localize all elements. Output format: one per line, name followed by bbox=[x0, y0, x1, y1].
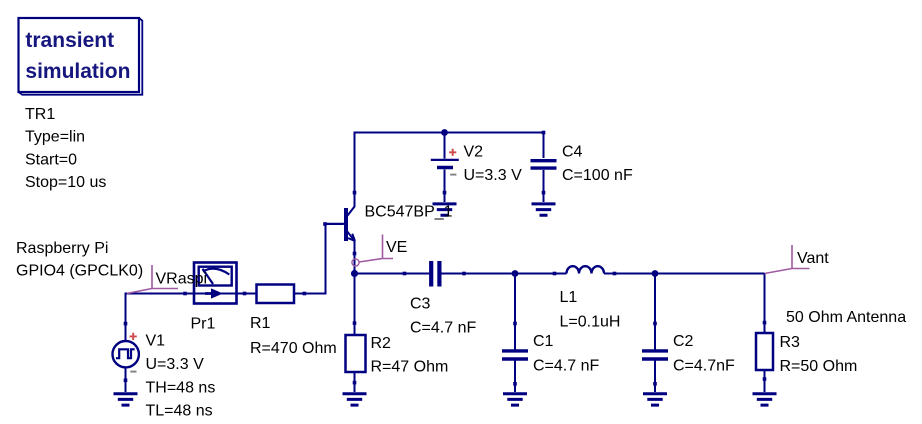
svg-text:TL=48 ns: TL=48 ns bbox=[146, 403, 213, 420]
svg-text:C=4.7 nF: C=4.7 nF bbox=[410, 320, 476, 337]
svg-text:Vant: Vant bbox=[797, 250, 829, 267]
svg-text:GPIO4 (GPCLK0): GPIO4 (GPCLK0) bbox=[16, 263, 143, 280]
svg-text:L=0.1uH: L=0.1uH bbox=[560, 314, 621, 331]
svg-text:R3: R3 bbox=[780, 334, 801, 351]
svg-text:VRaspi: VRaspi bbox=[156, 271, 208, 288]
svg-text:Type=lin: Type=lin bbox=[25, 129, 85, 146]
svg-text:R2: R2 bbox=[371, 335, 392, 352]
svg-text:TH=48 ns: TH=48 ns bbox=[146, 379, 216, 396]
svg-text:Stop=10 us: Stop=10 us bbox=[25, 174, 106, 191]
svg-text:C=100 nF: C=100 nF bbox=[562, 167, 633, 184]
svg-text:C=4.7nF: C=4.7nF bbox=[673, 358, 735, 375]
svg-text:L1: L1 bbox=[560, 289, 578, 306]
svg-text:U=3.3 V: U=3.3 V bbox=[146, 356, 205, 373]
svg-text:Raspberry Pi: Raspberry Pi bbox=[16, 240, 108, 257]
svg-text:R=470 Ohm: R=470 Ohm bbox=[250, 340, 337, 357]
svg-text:50 Ohm Antenna: 50 Ohm Antenna bbox=[786, 309, 906, 326]
svg-text:R=47 Ohm: R=47 Ohm bbox=[371, 359, 449, 376]
svg-text:BC547BP_1: BC547BP_1 bbox=[365, 204, 453, 221]
svg-text:C4: C4 bbox=[562, 144, 583, 161]
svg-text:U=3.3 V: U=3.3 V bbox=[464, 167, 523, 184]
svg-text:Start=0: Start=0 bbox=[25, 152, 77, 169]
svg-text:V2: V2 bbox=[464, 144, 484, 161]
svg-text:C1: C1 bbox=[533, 333, 554, 350]
svg-text:R1: R1 bbox=[250, 315, 271, 332]
svg-text:C2: C2 bbox=[673, 333, 694, 350]
svg-text:simulation: simulation bbox=[25, 60, 130, 83]
svg-text:C=4.7 nF: C=4.7 nF bbox=[533, 358, 599, 375]
svg-text:V1: V1 bbox=[146, 333, 166, 350]
svg-text:Pr1: Pr1 bbox=[191, 316, 216, 333]
svg-text:transient: transient bbox=[25, 29, 114, 52]
svg-text:R=50 Ohm: R=50 Ohm bbox=[780, 358, 858, 375]
svg-text:C3: C3 bbox=[410, 296, 431, 313]
svg-text:VE: VE bbox=[386, 239, 407, 256]
svg-text:TR1: TR1 bbox=[25, 106, 55, 123]
